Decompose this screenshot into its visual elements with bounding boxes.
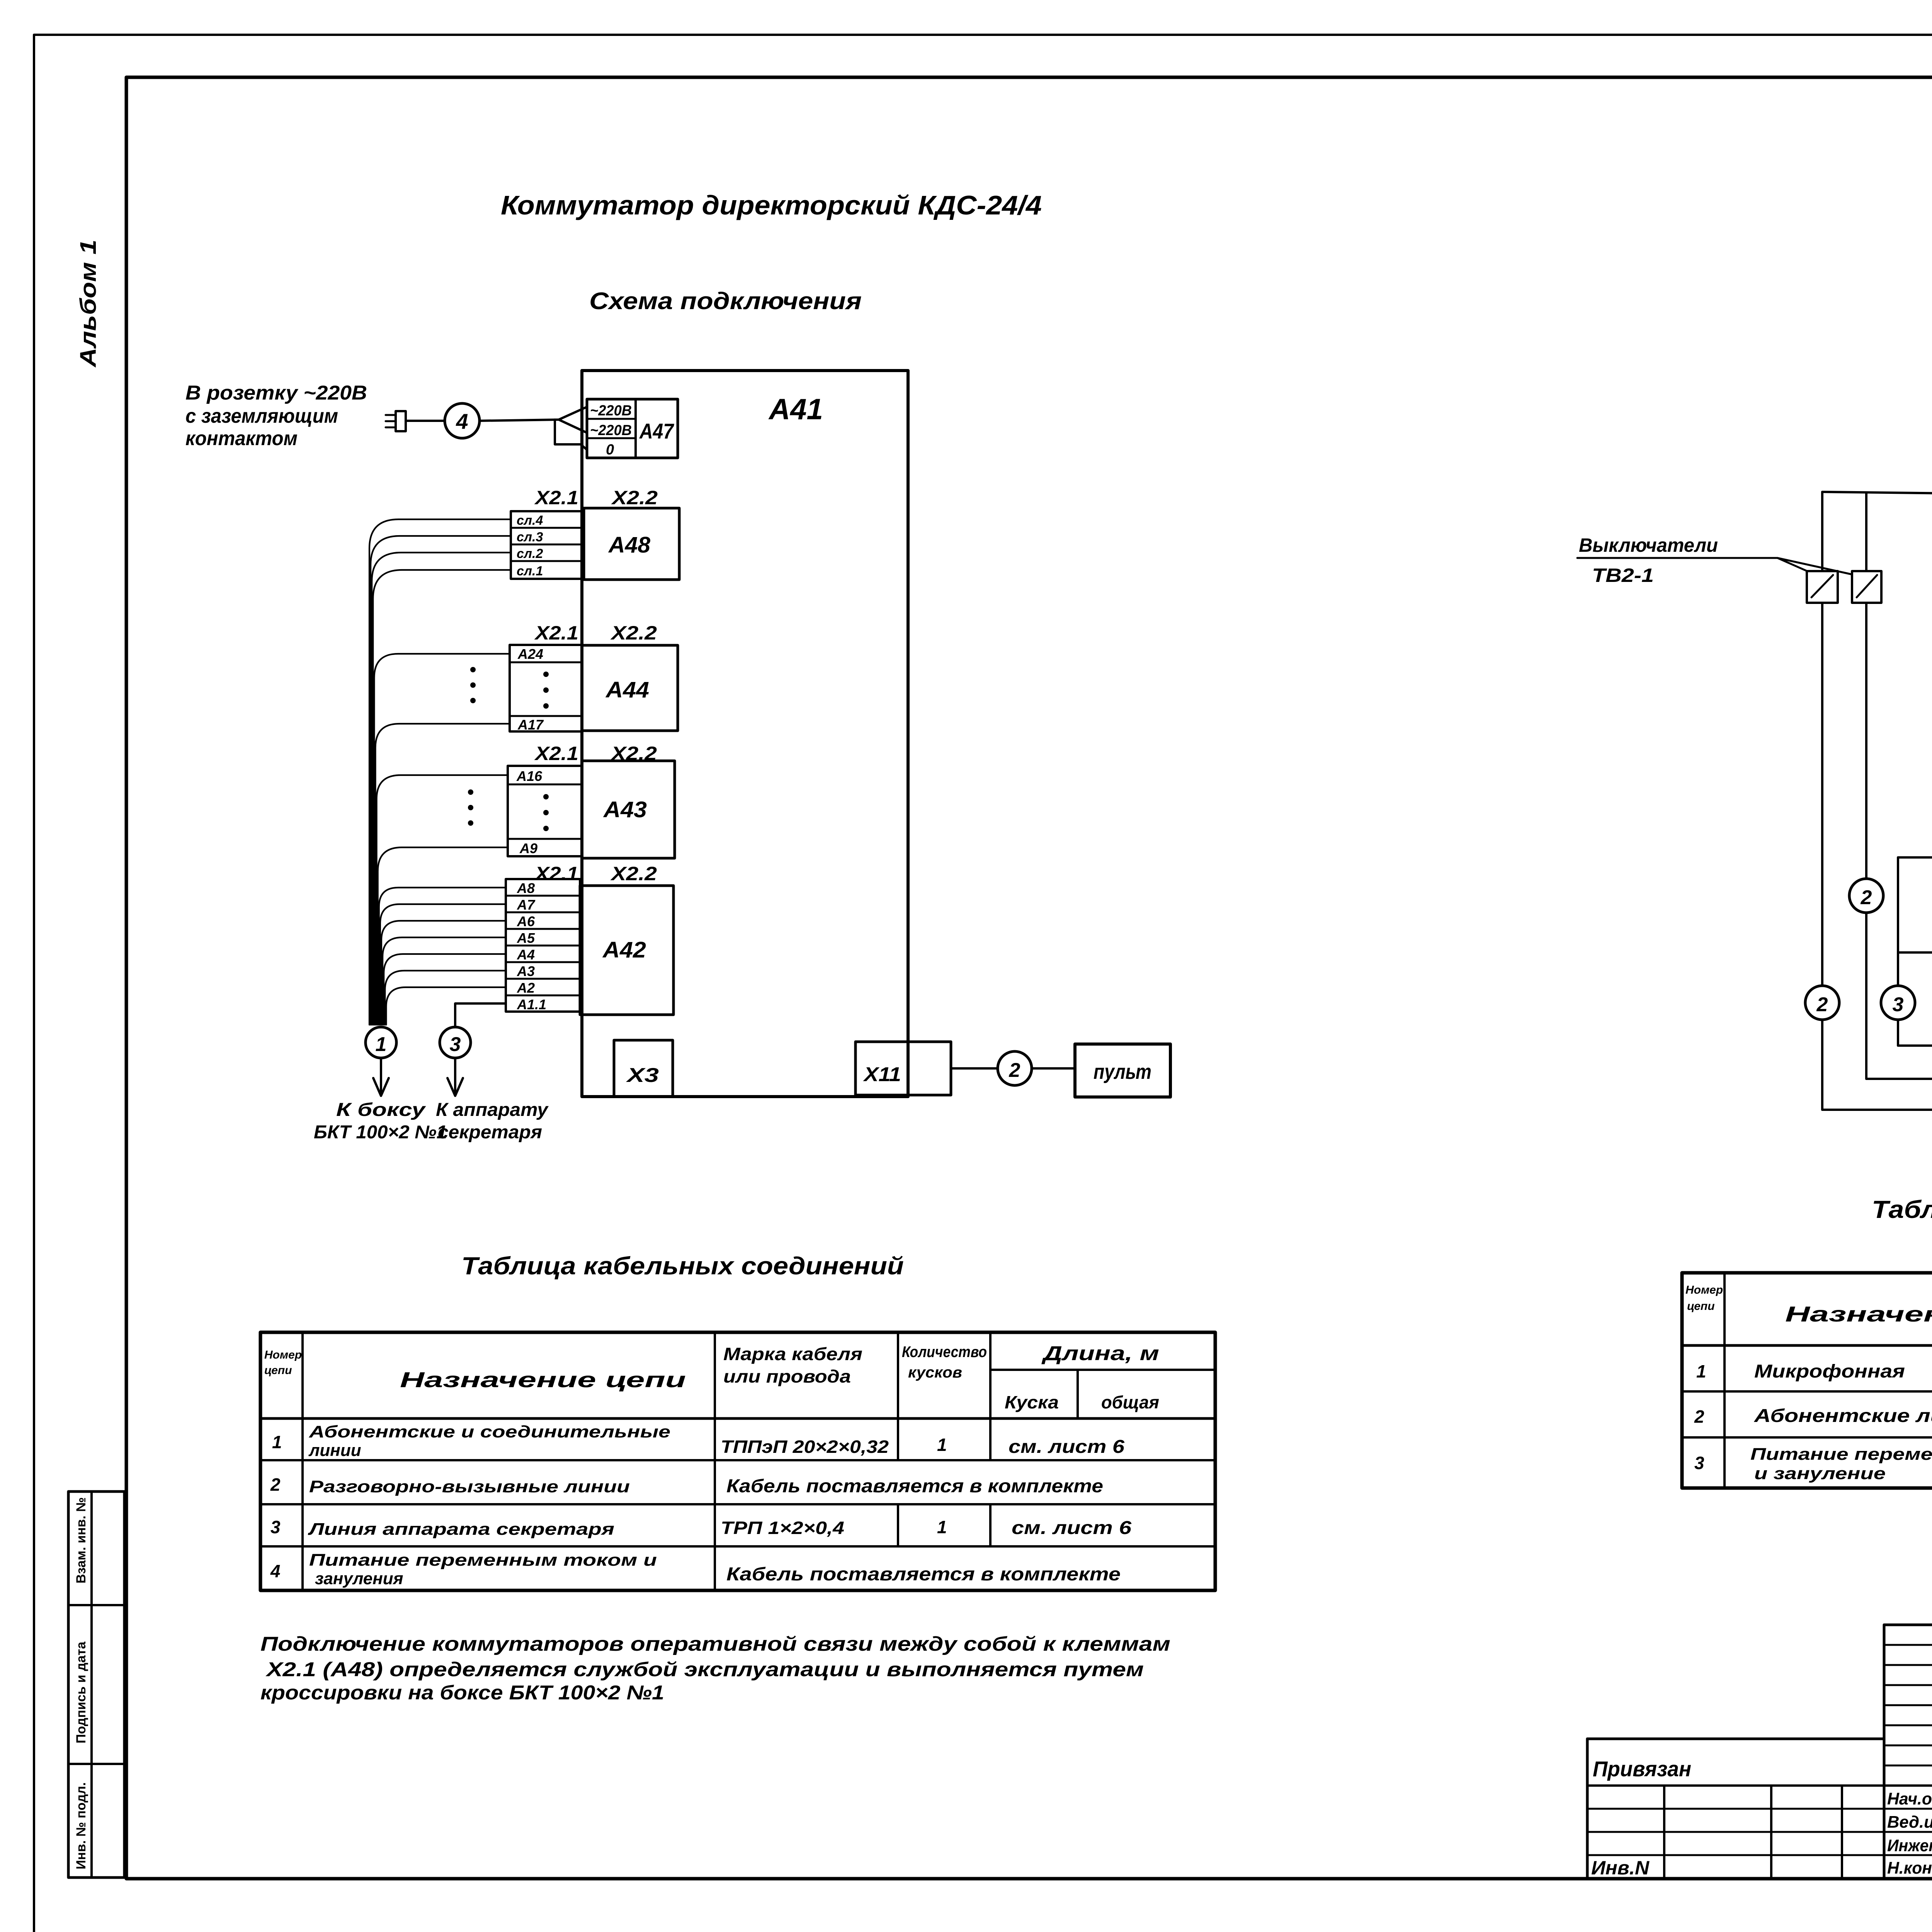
svg-text:А16: А16	[516, 768, 543, 784]
unit A41	[582, 371, 908, 1097]
block A42	[580, 886, 673, 1015]
left subtitle: Схема подключения	[589, 288, 862, 315]
labels X2.1 X2.2 (A42)	[534, 863, 657, 884]
svg-text:секретаря: секретаря	[438, 1122, 542, 1143]
console box пульт	[1075, 1044, 1170, 1097]
plug XS (mains 220V)	[386, 411, 406, 431]
svg-text:Х2.1: Х2.1	[534, 622, 578, 644]
svg-text:А1.1: А1.1	[517, 997, 546, 1012]
svg-text:кроссировки на боксе БКТ 1: кроссировки на боксе БКТ 100×2 №1	[260, 1682, 664, 1704]
svg-text:3: 3	[1694, 1453, 1704, 1473]
wire X11 to cable 2	[951, 1067, 998, 1070]
svg-text:см. лист 6: см. лист 6	[1012, 1518, 1131, 1538]
terminal rows A42: А8..А2, А1.1	[506, 879, 580, 1012]
connector X11	[855, 1042, 951, 1095]
svg-text:Привязан: Привязан	[1593, 1757, 1691, 1781]
svg-text:Х2.1: Х2.1	[534, 743, 578, 764]
svg-text:3: 3	[270, 1517, 281, 1537]
svg-text:БКТ 100×2 №1: БКТ 100×2 №1	[314, 1122, 447, 1143]
svg-text:Марка кабеля: Марка кабеля	[723, 1344, 862, 1364]
svg-text:с заземляющим: с заземляющим	[185, 405, 338, 427]
svg-text:пульт: пульт	[1094, 1060, 1151, 1083]
svg-text:А3: А3	[517, 963, 535, 979]
svg-text:А43: А43	[603, 797, 647, 822]
svg-text:ТВ2-1: ТВ2-1	[1592, 565, 1654, 586]
splitter into A47 terminals	[555, 407, 587, 450]
svg-text:кусков: кусков	[908, 1364, 962, 1381]
svg-text:А42: А42	[602, 937, 646, 963]
svg-text:1: 1	[1696, 1361, 1706, 1381]
svg-text:Таблица кабельных соединений: Таблица кабельных соединений	[1872, 1196, 1932, 1223]
svg-text:2: 2	[1694, 1406, 1704, 1427]
svg-text:сл.2: сл.2	[517, 546, 543, 561]
block A44	[582, 645, 678, 731]
labels X2.1 X2.2 (A48)	[534, 487, 658, 509]
svg-text:Н.контр: Н.контр	[1887, 1859, 1932, 1878]
wire plug to cable marker 4	[406, 420, 445, 422]
svg-text:А9: А9	[519, 840, 537, 856]
svg-text:Питание переменным током и: Питание переменным током и	[309, 1551, 657, 1570]
svg-text:сл.1: сл.1	[517, 564, 543, 578]
svg-text:2: 2	[1816, 993, 1828, 1016]
svg-text:и зануление: и зануление	[1754, 1464, 1886, 1483]
svg-text:Назначение цепи: Назначение цепи	[400, 1367, 686, 1392]
svg-text:3: 3	[1893, 993, 1904, 1016]
arrow to BKT box	[373, 1058, 389, 1096]
album label Альбом 1	[76, 240, 101, 368]
subscriber line wires bundle to cable 1	[369, 519, 511, 1025]
svg-text:цепи: цепи	[264, 1364, 292, 1377]
wire cable 2 to console	[1032, 1067, 1075, 1070]
svg-text:Инв.N: Инв.N	[1591, 1857, 1650, 1879]
right cable connections table	[1682, 1273, 1932, 1488]
block A48	[584, 508, 679, 580]
svg-text:сл.3: сл.3	[517, 530, 543, 544]
ground terminal	[1898, 927, 1932, 954]
svg-text:контактом: контактом	[185, 427, 298, 450]
svg-text:В розетку ~220В: В розетку ~220В	[185, 382, 367, 404]
svg-text:4: 4	[456, 409, 468, 434]
svg-text:Взам. инв. №: Взам. инв. №	[74, 1497, 88, 1583]
svg-text:Абонентские и соединительные: Абонентские и соединительные	[309, 1422, 670, 1441]
svg-text:1: 1	[937, 1517, 947, 1537]
svg-text:или провода: или провода	[723, 1366, 851, 1386]
subscriber wire (right) down	[1866, 603, 1932, 1087]
svg-text:общая: общая	[1101, 1392, 1159, 1412]
svg-text:Выключатели: Выключатели	[1579, 534, 1718, 556]
svg-text:К боксу: К боксу	[336, 1100, 426, 1120]
svg-text:1: 1	[376, 1033, 387, 1056]
svg-text:К аппарату: К аппарату	[436, 1100, 549, 1120]
cable marker 4	[445, 403, 480, 438]
mains wire to plug	[1898, 857, 1932, 1046]
svg-text:Питание переменным током: Питание переменным током	[1750, 1445, 1932, 1464]
svg-text:1: 1	[937, 1435, 947, 1455]
svg-text:Разговорно-вызывные линии: Разговорно-вызывные линии	[309, 1477, 630, 1496]
svg-text:Инв. № подл.: Инв. № подл.	[74, 1782, 88, 1869]
svg-text:Назначение цепи: Назначение цепи	[1785, 1302, 1932, 1326]
cable marker 3	[440, 1027, 471, 1058]
left margin boxes (Взам.инв.№ / Подпись и дата / Инв.№ подл.)	[68, 1492, 124, 1878]
svg-text:см. лист 6: см. лист 6	[1009, 1437, 1124, 1457]
svg-text:Коммутатор директорский КДС-: Коммутатор директорский КДС-24/4	[501, 190, 1042, 220]
svg-text:Х2.1: Х2.1	[534, 487, 578, 509]
svg-text:Вед.инж: Вед.инж	[1887, 1813, 1932, 1832]
svg-text:2: 2	[270, 1475, 281, 1495]
svg-text:А24: А24	[517, 646, 543, 662]
svg-text:~220В: ~220В	[590, 403, 632, 419]
svg-text:А7: А7	[517, 897, 536, 913]
labels X2.1 X2.2 (A43)	[534, 743, 657, 764]
svg-text:ТРП 1×2×0,4: ТРП 1×2×0,4	[721, 1518, 844, 1538]
svg-text:Линия аппарата секретаря: Линия аппарата секретаря	[308, 1520, 614, 1539]
labels X2.1 X2.2 (A44)	[534, 622, 657, 644]
svg-text:А41: А41	[768, 393, 823, 426]
svg-text:Инженер: Инженер	[1887, 1836, 1932, 1855]
svg-text:А17: А17	[517, 717, 544, 733]
svg-text:Х2.2: Х2.2	[610, 622, 657, 644]
svg-text:А48: А48	[608, 532, 651, 558]
title block (stamp)	[1587, 1624, 1932, 1879]
cable marker 2 (upper)	[1849, 879, 1883, 913]
svg-text:А8: А8	[517, 880, 535, 896]
svg-text:А44: А44	[605, 677, 649, 702]
svg-text:Нач.отд: Нач.отд	[1887, 1789, 1932, 1808]
switch SA1 TV2-1	[1807, 492, 1838, 603]
wire cable 4 to A47 splitter	[480, 420, 559, 421]
svg-text:Х2.1: Х2.1	[534, 863, 578, 884]
svg-text:Количество: Количество	[902, 1344, 987, 1361]
svg-text:1: 1	[272, 1432, 282, 1452]
svg-text:4: 4	[270, 1561, 281, 1581]
svg-text:Кабель поставляется в комплект: Кабель поставляется в комплекте	[726, 1476, 1103, 1497]
svg-text:цепи: цепи	[1687, 1300, 1715, 1313]
svg-text:Микрофонная: Микрофонная	[1754, 1361, 1905, 1382]
note: В розетку ~220В с заземляющим контактом	[185, 382, 367, 450]
svg-text:Абонентские линии: Абонентские линии	[1754, 1406, 1932, 1426]
svg-text:А4: А4	[517, 947, 535, 963]
svg-text:Таблица кабельных соединений: Таблица кабельных соединений	[461, 1252, 904, 1280]
wire junction to switches	[1822, 492, 1932, 493]
terminal rows A43: А16 ... А9	[468, 766, 582, 856]
svg-text:Куска: Куска	[1005, 1392, 1059, 1412]
svg-text:А5: А5	[517, 930, 535, 946]
left cable connections table	[260, 1332, 1215, 1590]
connector X3	[614, 1040, 673, 1097]
left cable table title	[461, 1252, 904, 1280]
note about cross-connection	[260, 1633, 1170, 1704]
svg-text:Подключение коммутаторов опе: Подключение коммутаторов оперативной свя…	[260, 1633, 1170, 1655]
terminal block A47	[587, 399, 678, 458]
svg-text:Х2.2: Х2.2	[611, 487, 658, 509]
svg-text:~220В: ~220В	[590, 422, 632, 439]
svg-text:А6: А6	[517, 913, 535, 929]
stamp texts	[1591, 1638, 1932, 1881]
svg-text:сл.4: сл.4	[517, 513, 543, 528]
cable marker 2 (lower)	[1805, 986, 1839, 1020]
svg-text:2: 2	[1009, 1059, 1020, 1082]
svg-text:Длина, м: Длина, м	[1041, 1342, 1159, 1365]
cable marker 2	[998, 1051, 1032, 1085]
arrow to secretary set	[447, 1058, 463, 1096]
svg-text:Номер: Номер	[1685, 1284, 1723, 1296]
label Выключатели ТВ2-1	[1577, 534, 1853, 586]
svg-text:Альбом 1: Альбом 1	[76, 240, 101, 368]
svg-text:Х3: Х3	[626, 1064, 659, 1087]
terminal rows A44: А24 ... А17	[470, 645, 582, 733]
svg-text:зануления: зануления	[315, 1569, 403, 1588]
svg-text:2: 2	[1861, 886, 1872, 909]
svg-text:Х2.1 (А48) определяется служ: Х2.1 (А48) определяется службой эксплуат…	[265, 1658, 1144, 1681]
svg-text:Подпись и дата: Подпись и дата	[74, 1641, 88, 1743]
terminal rows A48: сл.4 сл.3 сл.2 сл.1	[511, 511, 584, 579]
svg-text:ТППэП 20×2×0,32: ТППэП 20×2×0,32	[721, 1437, 889, 1457]
cable marker 3 (mains)	[1881, 986, 1915, 1020]
subscriber wire (left) down	[1822, 603, 1932, 1117]
left title: Коммутатор директорский КДС-24/4	[501, 190, 1042, 220]
block A43	[582, 761, 675, 858]
svg-text:А47: А47	[639, 419, 674, 443]
svg-text:Кабель поставляется в компл: Кабель поставляется в комплекте	[726, 1564, 1121, 1585]
svg-text:0: 0	[606, 442, 614, 458]
svg-text:Х11: Х11	[863, 1063, 901, 1086]
svg-text:А2: А2	[517, 980, 535, 996]
svg-text:Номер: Номер	[264, 1349, 302, 1361]
svg-text:линии: линии	[308, 1441, 361, 1460]
label К аппарату секретаря	[436, 1100, 549, 1143]
label К боксу БКТ 100х2 №1	[314, 1100, 447, 1143]
right cable table title	[1872, 1196, 1932, 1223]
cable marker 1	[366, 1027, 396, 1058]
switch SA2 TV2-1	[1852, 493, 1881, 603]
svg-text:Х2.2: Х2.2	[610, 863, 657, 884]
svg-text:3: 3	[450, 1033, 461, 1056]
svg-text:Схема подключения: Схема подключения	[589, 288, 862, 315]
wire А1.1 to cable marker 3	[455, 1003, 506, 1026]
